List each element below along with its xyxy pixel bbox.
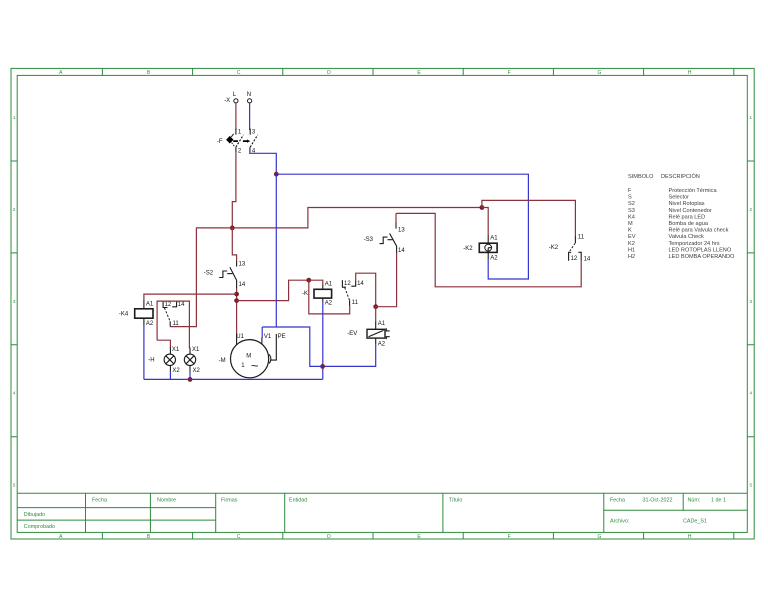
svg-text:-EV: -EV: [347, 331, 357, 337]
pin 11 stub: [349, 300, 351, 306]
svg-text:2: 2: [750, 207, 753, 212]
svg-text:H: H: [688, 70, 692, 76]
electrovalve EV: [347, 321, 389, 347]
svg-text:12: 12: [165, 302, 172, 308]
svg-text:G: G: [598, 534, 602, 540]
wire S3 pin13 to contact K2 pin14: [396, 213, 581, 286]
node B junction: [234, 292, 239, 297]
svg-text:D: D: [327, 534, 331, 540]
wire neutral to motor V1 and node F: [262, 327, 322, 366]
svg-text:Nivel Contenedor: Nivel Contenedor: [669, 208, 712, 214]
svg-text:F: F: [508, 70, 511, 76]
wire neutral down to motor V1 branch: [275, 174, 277, 327]
wire node D to relay coil K A1: [309, 280, 323, 285]
terminal -X L: [224, 92, 238, 104]
svg-text:U1: U1: [236, 334, 244, 340]
svg-text:H1: H1: [628, 247, 635, 253]
svg-text:A2: A2: [378, 342, 386, 348]
PE stub: [271, 334, 277, 360]
svg-text:11: 11: [173, 321, 180, 327]
svg-text:-K: -K: [302, 291, 308, 297]
hook pin 12: [342, 280, 346, 287]
hook pin 12: [569, 252, 572, 260]
svg-text:EV: EV: [628, 234, 636, 240]
S3 actuator: [380, 237, 388, 244]
svg-text:H: H: [688, 534, 692, 540]
svg-text:-K2: -K2: [549, 245, 559, 251]
svg-text:H2: H2: [628, 254, 635, 260]
contact K2 changeover 11-12-14: [549, 234, 591, 262]
bottom column ticks: [102, 532, 733, 539]
svg-text:Fecha: Fecha: [610, 498, 625, 504]
svg-text:A2: A2: [146, 321, 154, 327]
pin 1 stub: [235, 129, 237, 135]
wire lamp H1 to neutral bus: [169, 371, 171, 379]
right row ticks: [747, 161, 754, 437]
breaker blade pole 1 dashed: [236, 135, 244, 147]
svg-text:12: 12: [571, 256, 578, 262]
svg-text:A2: A2: [325, 301, 333, 307]
breaker link bars: [233, 140, 247, 142]
contact K changeover 12-14-11: [342, 280, 364, 306]
svg-text:CADe_S1: CADe_S1: [683, 518, 707, 524]
svg-text:14: 14: [398, 248, 405, 254]
svg-text:~: ~: [251, 358, 259, 373]
svg-text:Valvula Check: Valvula Check: [669, 234, 705, 240]
svg-text:C: C: [237, 534, 241, 540]
svg-text:4: 4: [750, 391, 753, 396]
svg-text:F: F: [508, 534, 511, 540]
svg-text:K2: K2: [628, 241, 635, 247]
svg-text:3: 3: [750, 299, 753, 304]
terminal N: [247, 92, 252, 103]
wire breaker pin4 to neutral branch point: [250, 153, 277, 174]
pin 3 stub: [249, 129, 251, 135]
wire contact K pin14 to node E: [356, 273, 376, 307]
svg-text:-S3: -S3: [364, 237, 374, 243]
selector S3 nivel contenedor: [364, 213, 406, 254]
wire node E down to valve EV A1: [375, 307, 377, 323]
wire node D around to contact K pin 11: [309, 280, 350, 314]
row numbers left: [13, 115, 16, 488]
wire lamp H2 to neutral bus: [189, 371, 191, 379]
wire lamp rail over contact K4: [157, 301, 189, 348]
svg-text:A1: A1: [146, 302, 154, 308]
svg-text:X2: X2: [193, 368, 201, 374]
svg-text:S2: S2: [628, 201, 635, 207]
svg-text:-X: -X: [224, 98, 230, 104]
svg-text:1 de 1: 1 de 1: [711, 498, 726, 504]
svg-text:31-Oct-2022: 31-Oct-2022: [643, 498, 673, 504]
svg-text:13: 13: [239, 261, 246, 267]
svg-text:14: 14: [357, 281, 364, 287]
svg-text:Selector: Selector: [669, 195, 690, 201]
left row ticks: [11, 161, 17, 437]
top column ticks: [102, 68, 733, 75]
wire node A left down to contact K4 pin 11: [170, 228, 232, 327]
pin 11 stub: [169, 321, 171, 326]
svg-text:13: 13: [398, 227, 405, 233]
neutral bottom bus: [144, 378, 323, 380]
svg-text:Nivel Rotoplas: Nivel Rotoplas: [669, 201, 705, 207]
column letters top: [59, 70, 692, 76]
node C junction: [234, 298, 239, 303]
wire node H up to contact K2 pin 11: [482, 200, 576, 237]
svg-text:N: N: [247, 92, 251, 98]
svg-text:F: F: [628, 188, 632, 194]
relay coil K: [302, 282, 333, 307]
svg-text:X1: X1: [192, 347, 200, 353]
breaker F thermal protection: [217, 129, 258, 155]
svg-text:5: 5: [750, 483, 753, 488]
wire node A right up to main rail: [232, 208, 482, 228]
svg-text:5: 5: [13, 483, 16, 488]
timer coil K2 temporizador: [463, 235, 498, 261]
svg-text:A2: A2: [490, 255, 498, 261]
selector S2 nivel rotoplas: [204, 261, 246, 288]
svg-text:-M: -M: [219, 358, 226, 364]
svg-text:14: 14: [584, 256, 591, 262]
wire L terminal to breaker pin 1: [235, 103, 237, 130]
svg-text:S3: S3: [628, 208, 635, 214]
breaker trip lever: [231, 134, 233, 137]
svg-text:-H: -H: [148, 358, 154, 364]
node G neutral branch junction: [274, 172, 279, 177]
svg-text:V1: V1: [264, 334, 272, 340]
svg-text:Relé para LED: Relé para LED: [669, 214, 706, 220]
svg-text:Temporizador 24 hrs: Temporizador 24 hrs: [669, 241, 720, 247]
lamp H1 rotoplas lleno: [148, 347, 180, 374]
svg-text:-S2: -S2: [204, 271, 214, 277]
node F neutral junction: [320, 364, 325, 369]
wire V1 drop: [261, 327, 263, 338]
svg-text:14: 14: [239, 282, 246, 288]
wire node H to timer K2 A1: [482, 208, 488, 236]
svg-text:A1: A1: [378, 321, 386, 327]
svg-text:3: 3: [13, 299, 16, 304]
wire neutral rail right to timer K2 A2: [276, 174, 528, 279]
wire breaker pin2 down with jog to node A: [232, 153, 236, 228]
wire S2 pin14 down through nodes B and C to motor U1: [236, 289, 238, 335]
wire rail to lamp H1: [157, 340, 170, 348]
svg-text:4: 4: [13, 391, 16, 396]
svg-text:LED ROTOPLAS LLENO: LED ROTOPLAS LLENO: [669, 247, 732, 253]
breaker link arrowhead: [247, 140, 250, 143]
wire N terminal to breaker pin 3: [249, 103, 251, 130]
svg-text:LED BOMBA OPERANDO: LED BOMBA OPERANDO: [669, 254, 736, 260]
svg-text:K: K: [628, 228, 632, 234]
svg-text:Nombre: Nombre: [157, 498, 176, 504]
svg-text:A1: A1: [490, 235, 498, 241]
svg-text:X1: X1: [172, 347, 180, 353]
hook pin 14: [578, 252, 581, 261]
svg-text:C: C: [237, 70, 241, 76]
contact blade dashed: [164, 308, 170, 322]
svg-text:PE: PE: [278, 334, 286, 340]
svg-text:Relé para Valvula check: Relé para Valvula check: [669, 228, 729, 234]
svg-text:Dibujado: Dibujado: [24, 512, 45, 518]
hook pin 14: [172, 301, 176, 307]
svg-text:Firmas: Firmas: [221, 498, 238, 504]
sheet border frame: [11, 68, 754, 540]
svg-text:1: 1: [13, 115, 16, 120]
relay coil K4: [119, 300, 154, 327]
wire node A down to S2 pin 13: [232, 228, 236, 262]
wire node B to relay coil K4 A1: [144, 294, 237, 301]
svg-text:Comprobado: Comprobado: [24, 524, 55, 530]
svg-text:K4: K4: [628, 214, 635, 220]
svg-text:Archivo:: Archivo:: [610, 518, 629, 524]
legend: symbol description table: [628, 173, 735, 260]
svg-text:M: M: [628, 221, 633, 227]
svg-text:2: 2: [13, 207, 16, 212]
node H junction main rail: [480, 205, 485, 210]
node E junction: [373, 304, 378, 309]
svg-text:DESCRIPCIÓN: DESCRIPCIÓN: [661, 173, 700, 180]
S2 actuator: [219, 271, 227, 278]
pin 4 stub: [249, 147, 251, 153]
svg-text:11: 11: [578, 234, 585, 240]
wire K A2 to neutral node F: [322, 301, 324, 379]
contact blade dashed: [345, 288, 350, 301]
breaker trip dash lower: [232, 143, 235, 147]
svg-text:Núm:: Núm:: [688, 498, 701, 504]
svg-text:Protección Térmica: Protección Térmica: [669, 188, 718, 194]
svg-text:X2: X2: [172, 368, 180, 374]
svg-text:Bomba de agua: Bomba de agua: [669, 221, 709, 227]
svg-text:12: 12: [344, 281, 351, 287]
wire node C to node D: [237, 280, 309, 300]
svg-text:14: 14: [178, 302, 185, 308]
motor M bomba: [219, 334, 286, 378]
svg-text:G: G: [598, 70, 602, 76]
svg-text:A1: A1: [325, 282, 333, 288]
pin 2 stub: [235, 147, 237, 153]
svg-text:Fecha: Fecha: [92, 498, 107, 504]
contact blade dashed: [570, 243, 575, 251]
svg-text:D: D: [327, 70, 331, 76]
svg-text:11: 11: [352, 300, 359, 306]
wire EV A2 to node F: [323, 344, 376, 367]
svg-text:SIMBOLO: SIMBOLO: [628, 174, 654, 180]
lamp H2 bomba operando: [184, 347, 200, 374]
title block: [17, 493, 747, 532]
svg-text:-K4: -K4: [119, 311, 129, 317]
svg-text:Entidad: Entidad: [289, 498, 307, 504]
wire node E to S3 pin 14: [376, 252, 397, 306]
row numbers right: [750, 115, 753, 488]
node D junction: [306, 278, 311, 283]
node lamp H2 neutral junction: [188, 377, 193, 382]
svg-text:S: S: [628, 195, 632, 201]
svg-text:1: 1: [750, 115, 753, 120]
breaker blade pole 2 dashed: [250, 135, 258, 147]
column letters bottom: [59, 534, 692, 540]
svg-text:-K2: -K2: [463, 246, 473, 252]
node A junction L bus: [230, 226, 235, 231]
svg-text:-F: -F: [217, 139, 223, 145]
contact K4 changeover 12-14-11: [163, 301, 185, 327]
hook pin 14: [351, 280, 355, 286]
wire K4 A2 to neutral bus: [143, 326, 145, 380]
svg-text:Título: Título: [449, 498, 462, 504]
hook pin 12: [163, 301, 167, 307]
breaker trip diamond: [226, 136, 233, 144]
